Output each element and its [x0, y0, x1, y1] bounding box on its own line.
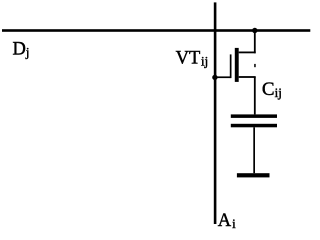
wire: source lead vertical [254, 77, 256, 114]
wire: drain lead vertical [254, 31, 256, 53]
wire: gate connection [215, 76, 231, 78]
wire: source lead horizontal [239, 76, 256, 78]
wire: address line Ai (vertical) [214, 2, 217, 224]
ground plate bar [237, 173, 270, 177]
capacitor Cij bottom plate [231, 124, 277, 128]
capacitor Cij top plate [231, 114, 277, 118]
transistor VTij gate electrode [230, 54, 232, 78]
wire: capacitor to plate electrode [253, 127, 255, 173]
transistor VTij channel bar [235, 48, 239, 82]
node: drain junction on Dj [252, 28, 257, 33]
transistor bulk tick [254, 64, 256, 67]
wire: drain lead horizontal [239, 52, 256, 54]
node: gate junction on Ai [212, 75, 217, 80]
wire: data line Dj (horizontal) [2, 29, 310, 32]
